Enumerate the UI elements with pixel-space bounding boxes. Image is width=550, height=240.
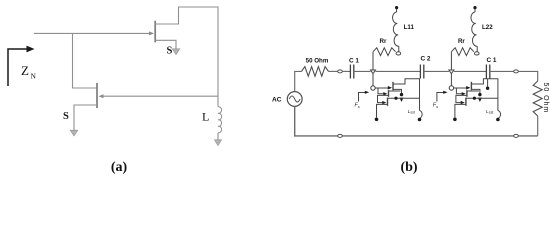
QC gate arrowhead xyxy=(461,101,465,104)
transistor Q1 channel bar xyxy=(154,21,156,43)
wire node1 to C2 xyxy=(376,70,421,72)
QA gate arrowhead xyxy=(466,86,470,90)
wire right rail into inductor L xyxy=(217,96,219,106)
node ellipse bottom rail left xyxy=(338,134,343,137)
wire QB gate branch xyxy=(378,88,384,94)
node ellipse on top wire left xyxy=(338,70,343,73)
svg-text:50 Ohm: 50 Ohm xyxy=(306,58,329,65)
wire QA source to junction dot xyxy=(471,89,480,93)
svg-text:sst: sst xyxy=(489,111,494,115)
svg-text:AC: AC xyxy=(272,97,282,104)
svg-text:L: L xyxy=(202,110,209,124)
inductor Lsst arc on cell rail xyxy=(498,111,501,119)
wire stub from node 1 up to Rr xyxy=(372,52,374,70)
wire stub from node 2 up to Rr xyxy=(450,52,452,70)
svg-text:Rr: Rr xyxy=(458,38,465,45)
wire top input to gate of Q1 xyxy=(34,32,150,34)
wire QC drain across to cell rail xyxy=(388,97,420,99)
QB channel bar xyxy=(466,90,468,97)
QA gate arrowhead xyxy=(388,86,392,90)
AC source sine wave xyxy=(289,96,300,102)
wire QC source down to ground dot xyxy=(377,104,388,117)
transistor Q2 channel bar xyxy=(96,83,98,108)
ground dot below QC source xyxy=(375,118,379,122)
QC channel bar xyxy=(465,98,467,106)
inductor L11 coil xyxy=(393,12,399,46)
QA channel bar xyxy=(392,82,394,91)
wire QC source down to ground dot xyxy=(455,104,466,117)
resistor 50 Ohm load zigzag xyxy=(533,81,542,116)
annotation pointer Fs cell 1 xyxy=(359,93,366,102)
impedance ZN arrow xyxy=(8,49,29,86)
supply dot atop L11 xyxy=(395,6,398,9)
wire Q2 source down xyxy=(74,105,97,130)
wire from top line down to Q2 drain xyxy=(73,33,97,88)
svg-text:s: s xyxy=(436,104,438,109)
ground dot below QC source xyxy=(453,118,457,122)
wire Q2 gate to right rail xyxy=(104,95,219,97)
wire QB source to QC gate xyxy=(378,95,389,102)
junction dot QC drain xyxy=(473,97,476,100)
wire C1b toward right xyxy=(490,70,514,72)
node ellipse below coil L11 xyxy=(396,52,401,55)
wire QA source to junction dot xyxy=(393,89,402,93)
wire stub from node 2 down to gate circle xyxy=(450,74,452,86)
wire coil bottom to ellipse xyxy=(398,46,400,52)
svg-text:Z: Z xyxy=(21,63,29,78)
inductor L22 coil xyxy=(471,12,477,46)
inductor Lsst arc on cell rail xyxy=(420,111,423,119)
resistor Rr2 zigzag xyxy=(451,48,474,56)
svg-text:sst: sst xyxy=(410,111,415,115)
ground arrow below QA source dot xyxy=(478,98,482,102)
Q1 gate arrowhead xyxy=(149,31,154,35)
ground arrow below QA source dot xyxy=(399,98,403,102)
wire 50Ohm to node ellipse xyxy=(329,70,338,72)
QA channel bar xyxy=(470,82,472,91)
wire C1a to node 1 xyxy=(354,70,371,72)
QB channel bar xyxy=(388,90,390,97)
wire QB drain to dot xyxy=(389,90,401,92)
inductor L coil xyxy=(218,107,222,133)
wire coil top stub xyxy=(474,9,476,12)
svg-text:N: N xyxy=(31,72,37,81)
ground below Q2 source xyxy=(70,130,78,136)
svg-text:C 2: C 2 xyxy=(421,56,431,63)
gate node circle cell 2 xyxy=(449,86,453,90)
Q2 gate arrowhead xyxy=(99,94,104,98)
junction dot below C1b xyxy=(486,87,489,90)
bottom rail wire xyxy=(295,106,538,135)
wire QA drain loop over to cell rail xyxy=(393,79,420,111)
svg-text:50 Ohm: 50 Ohm xyxy=(542,83,549,114)
junction dot QA source / QB drain xyxy=(478,93,481,96)
wire stub from node 1 down to gate circle xyxy=(372,74,374,86)
wire C2 to node 2 xyxy=(424,70,449,72)
node triangle 1 on main wire xyxy=(371,70,376,74)
QB gate arrowhead xyxy=(462,92,466,95)
svg-text:(a): (a) xyxy=(111,160,128,175)
supply dot atop L22 xyxy=(473,6,476,9)
wire Q1 drain up and over to right rail xyxy=(155,7,218,96)
wire coil bottom to ellipse xyxy=(476,46,478,52)
svg-text:L11: L11 xyxy=(404,24,415,31)
svg-text:C 1: C 1 xyxy=(487,57,497,64)
wire node2 to C1b xyxy=(454,70,487,72)
QC gate arrowhead xyxy=(382,101,386,104)
capacitor C1a plates xyxy=(349,65,351,79)
capacitor C1b plates xyxy=(485,65,487,79)
QC channel bar xyxy=(387,98,389,106)
wire to C1a xyxy=(342,70,350,72)
svg-text:C 1: C 1 xyxy=(349,57,359,64)
stub below C1b left plate xyxy=(487,79,489,87)
svg-text:s: s xyxy=(358,104,360,109)
ground arrow below L xyxy=(217,133,219,140)
wire load to bottom rail xyxy=(537,116,539,136)
wire to top right corner xyxy=(518,71,537,81)
resistor 50Ohm zigzag xyxy=(302,67,329,77)
wire coil top stub xyxy=(396,9,398,12)
resistor Rr1 zigzag xyxy=(373,48,396,56)
AC source circle xyxy=(287,92,302,107)
svg-text:S: S xyxy=(63,111,69,122)
junction dot QA source / QB drain xyxy=(400,93,403,96)
wire QC drain across to cell rail xyxy=(466,97,498,99)
QB gate arrowhead xyxy=(383,92,387,95)
wire AC top to 50Ohm resistor xyxy=(295,71,302,91)
wire QB drain to dot xyxy=(467,90,479,92)
svg-text:Rr: Rr xyxy=(380,38,387,45)
wire QB gate branch xyxy=(456,88,462,94)
wire gate line to QA cell 2 xyxy=(454,87,468,89)
node ellipse bottom rail right xyxy=(514,134,519,137)
ground dot below cell rail xyxy=(496,118,500,122)
gate node circle cell 1 xyxy=(371,86,375,90)
node ellipse on top wire right xyxy=(514,70,519,73)
svg-text:(b): (b) xyxy=(400,160,417,175)
ground below Q1 source xyxy=(172,49,180,55)
wire gate line to QA cell 1 xyxy=(375,87,389,89)
wire QA drain loop over to cell rail xyxy=(471,79,498,111)
annotation pointer Fs cell 2 xyxy=(437,93,444,102)
svg-text:S: S xyxy=(167,46,173,57)
wire QB source to QC gate xyxy=(456,95,467,102)
impedance ZN arrowhead xyxy=(27,46,35,53)
capacitor C2 plates xyxy=(419,65,421,79)
ground dot below cell rail xyxy=(418,118,422,122)
junction dot QC drain xyxy=(394,97,397,100)
node ellipse below coil L22 xyxy=(475,52,480,55)
node triangle 2 on main wire xyxy=(449,70,454,74)
wire Q1 source down xyxy=(155,40,176,48)
svg-text:L22: L22 xyxy=(482,24,493,31)
